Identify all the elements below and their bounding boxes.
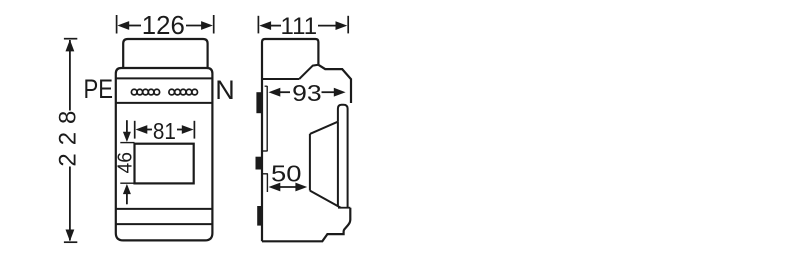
side view: wall tab middle [256,157,262,170]
dim 46 upper arrow (down) [126,120,128,133]
front view: window rectangle [135,144,194,184]
side view: inner back wall jog [263,150,268,152]
side view: inner back wall line lower [266,174,268,192]
dim 81 right arrow [182,125,194,134]
svg-text:228: 228 [55,111,82,167]
side view: cover hinge bump [338,105,348,208]
side view: lower front edge [262,208,350,242]
dim 111 right arrow [336,21,348,30]
side view: cover trapezoid right edge [337,122,339,207]
dim 50 left arrow [269,183,281,192]
side view: lid bottom line [262,78,299,80]
front view: terminal strip top line [116,77,213,79]
dim 111 left arrow [259,21,271,30]
label 46 (rotated) [114,152,137,174]
dim 111 tick left [257,16,259,34]
dim 228 vertical line upper segment [69,40,71,111]
dim 81 left arrow [136,125,148,134]
side view: cover trapezoid bottom diagonal [310,191,341,208]
dim 228 bottom tick [64,241,77,243]
side view: wall tab top [256,92,261,113]
svg-text:46: 46 [114,152,137,174]
side view: cover trapezoid top diagonal [310,122,338,134]
terminal circles group PE [131,89,159,95]
dim 93 right arrow [334,88,346,97]
front view: lid (top cover) [123,39,207,68]
label 228 (rotated) [55,111,82,167]
dim 228 vertical line lower segment [69,167,71,241]
svg-text:50: 50 [271,161,302,187]
svg-text:81: 81 [153,118,176,144]
svg-text:93: 93 [292,80,322,106]
side view: inner back wall line upper [266,86,268,151]
window top extension line [120,142,134,144]
dim 228 bottom arrow [66,230,75,242]
side view: left edge + lid top outline [262,39,318,241]
front view: lower horizontal line 1 [116,208,213,210]
dim 81 tick left [134,121,136,139]
side view: wall tab bottom [257,206,261,226]
svg-text:126: 126 [142,12,185,40]
svg-text:PE: PE [84,73,114,104]
side view: inner back wall line middle [263,173,268,175]
side view: top ridge and front chamfer to outer edge [318,65,351,103]
side view: inner back wall top hook [265,85,268,87]
dim 111 tick right [347,16,349,34]
dim 126 tick right [213,15,215,34]
front view: body outline [116,68,213,240]
terminal circles group N [169,89,198,95]
front view: terminal strip bottom line [116,102,213,104]
dim 126 right arrow [201,21,213,30]
side view: lid front chamfer [299,65,318,79]
dim 126 left arrow [117,21,129,30]
dim 126 tick left [116,15,118,34]
dim 46 lower arrow (up) [126,194,128,204]
dim 228 top tick [64,38,77,40]
svg-text:N: N [215,75,235,105]
dim 50 right arrow [295,183,307,192]
dim 81 tick right [193,121,195,139]
window bottom extension line [120,182,134,184]
front view: lower horizontal line 2 [116,223,213,225]
svg-text:111: 111 [281,13,318,40]
side view: latch step line [338,207,350,209]
side view: cover trapezoid left edge [309,134,311,191]
dim 93 left arrow [269,88,281,97]
dim 50 shaft [279,186,296,188]
dim 228 top arrow [66,40,75,52]
